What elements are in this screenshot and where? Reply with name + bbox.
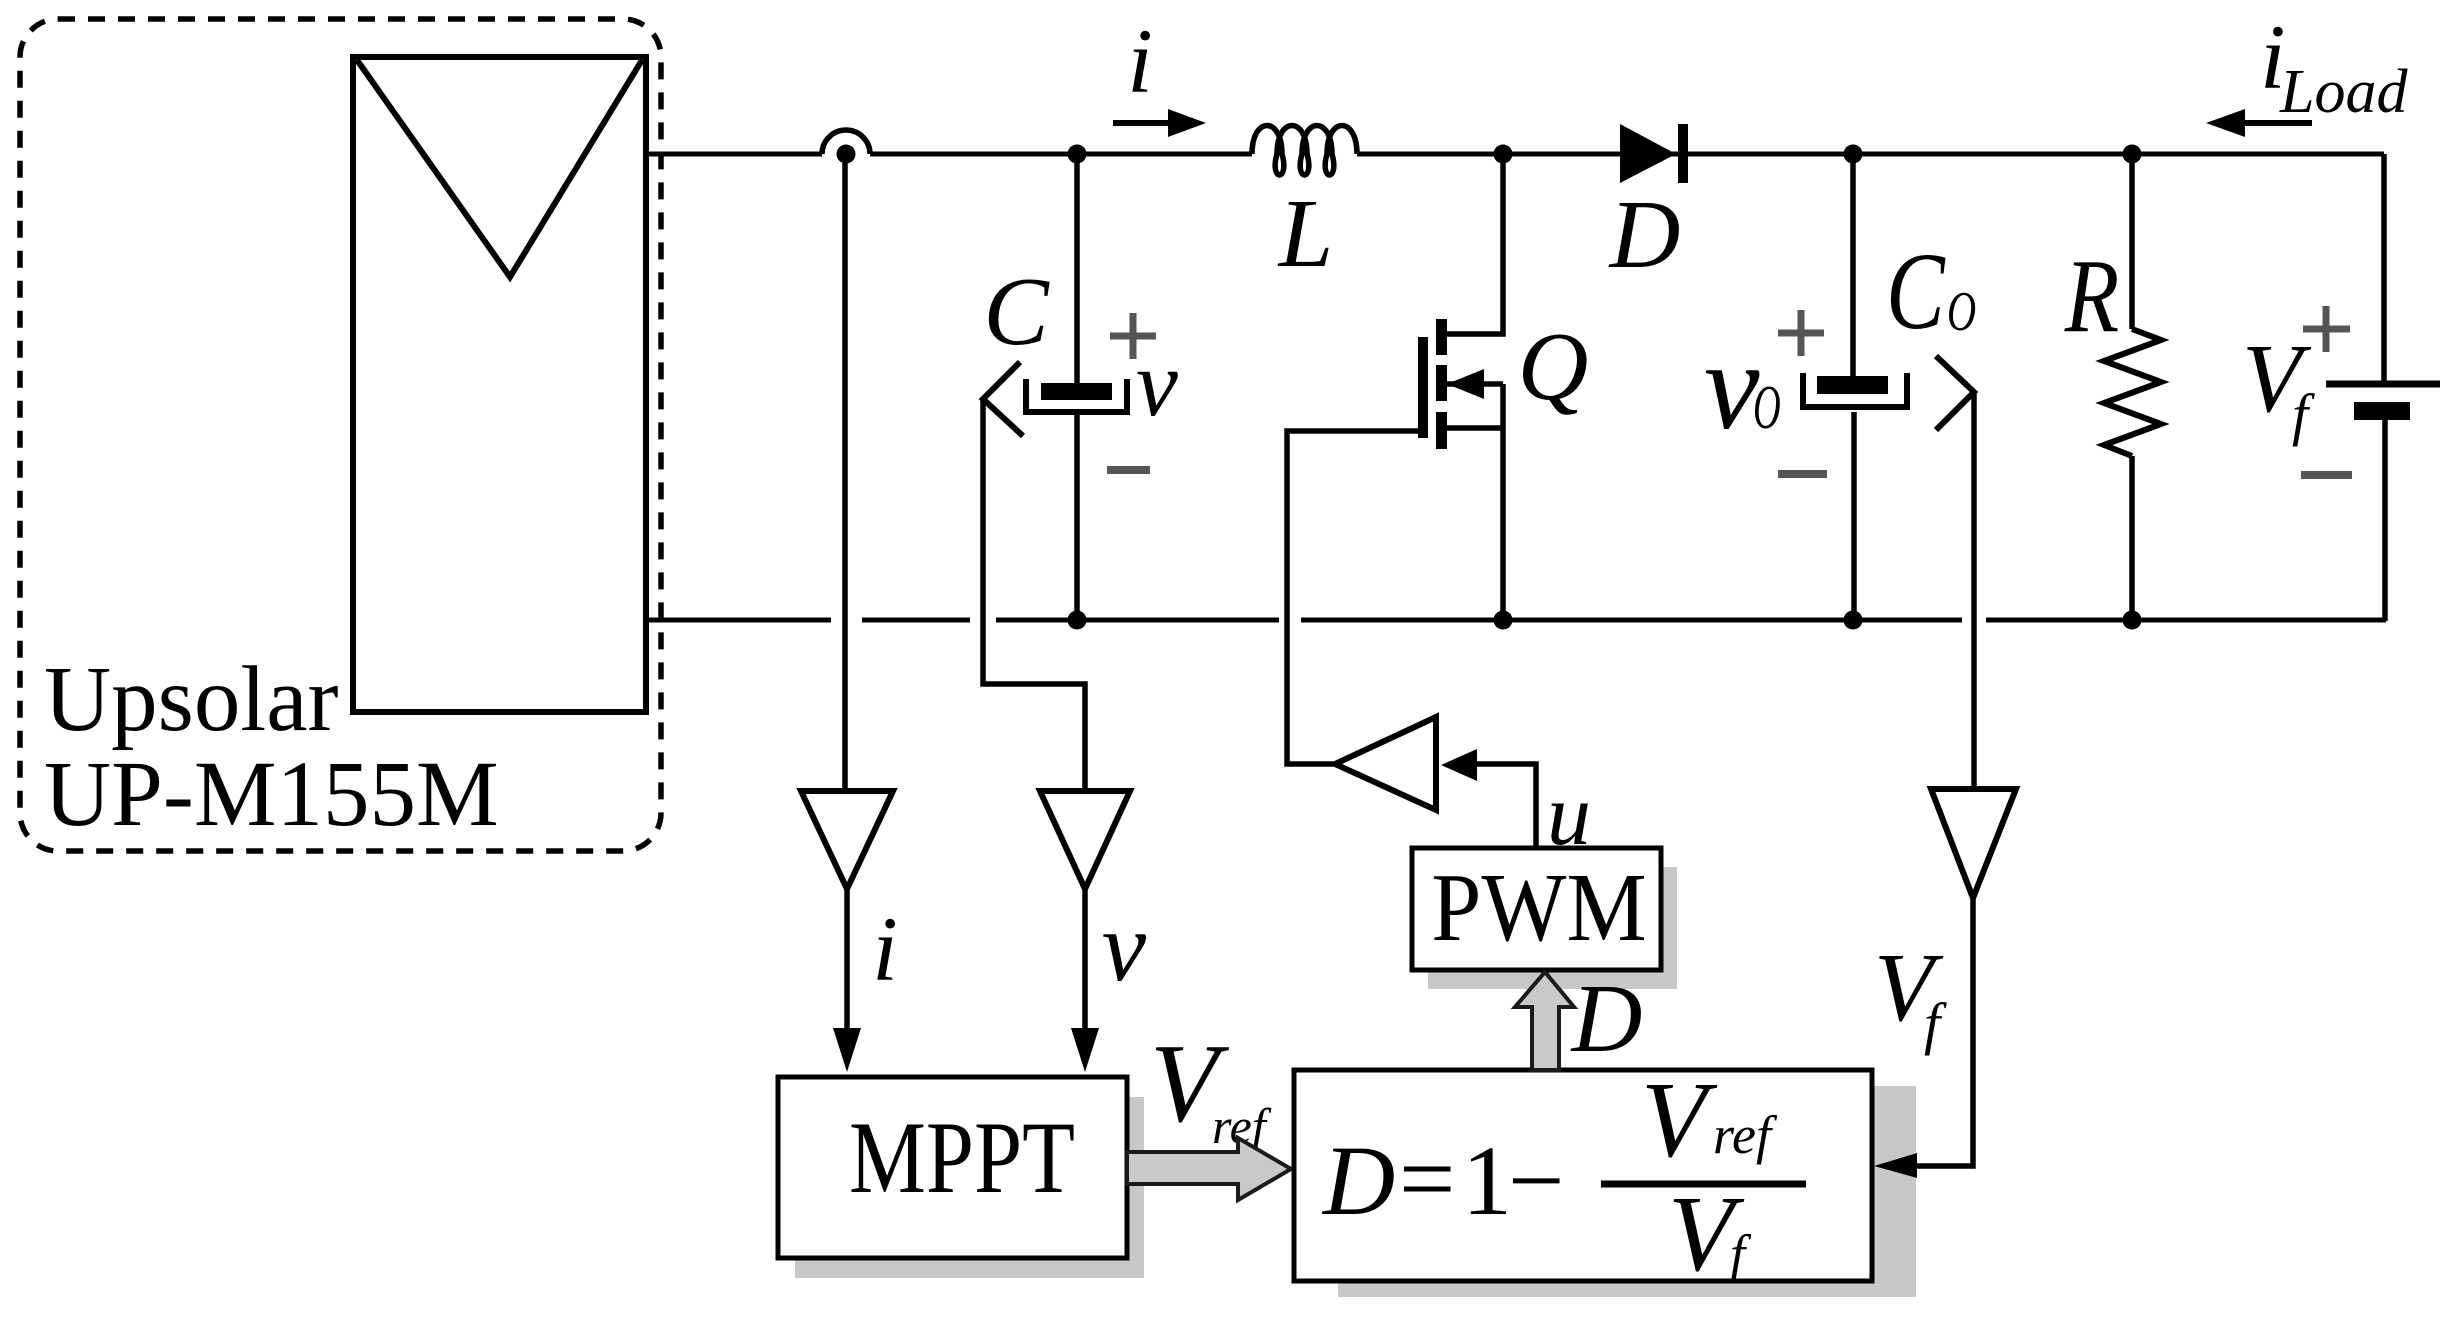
capacitor C [1026,379,1127,412]
wire C top lead [1074,154,1080,383]
svg-text:D: D [1570,965,1643,1073]
node B (Q top) [1494,145,1513,164]
resistor R [2104,329,2161,456]
svg-text:i: i [1127,10,1153,112]
node A (C top) [1068,145,1087,164]
svg-text:=: = [1399,1123,1455,1234]
svg-text:UP-M155M: UP-M155M [44,743,499,846]
svg-text:L: L [1277,180,1334,288]
svg-text:C: C [1886,230,1946,353]
v sense arrow to MPPT [1071,889,1099,1072]
v sense wire [983,399,1085,791]
Vf sense buffer [1931,789,2016,898]
iLoad arrow [2206,109,2312,137]
i sense arrow to MPPT [833,889,861,1072]
plus sign (Co) [1778,310,1824,356]
node H (R bottom) [2123,611,2142,630]
i sense buffer [801,791,893,889]
svg-text:v: v [1704,318,1760,456]
label D (diode) [1608,181,1681,289]
svg-text:Upsolar: Upsolar [44,648,338,751]
v sense buffer [1040,791,1130,889]
PWM box shadow [1428,867,1677,989]
label UP-M155M [44,743,499,846]
svg-text:v: v [1102,891,1147,1002]
plus sign (C) [1110,313,1156,359]
current arrow i [1113,109,1206,137]
PWM box [1412,848,1661,970]
label Co [1886,230,1976,353]
svg-text:V: V [1641,1061,1718,1180]
label Upsolar [44,648,338,751]
svg-text:C: C [983,258,1050,366]
svg-text:Load: Load [2279,58,2408,126]
wire top bus right [1357,152,2384,157]
label i (sense) [872,898,898,1000]
label D (duty) [1570,965,1643,1073]
gate wire [1287,431,1418,764]
label R [2064,238,2119,354]
wire top bus middle [870,152,1252,157]
v sense probe arrow [983,362,1023,436]
minus sign (Co) [1778,470,1827,478]
minus sign (C) [1107,466,1150,474]
MOSFET Q source wire [1500,384,1506,620]
svg-text:O: O [1753,374,1781,443]
resistor R bottom lead [2129,456,2135,620]
label C [983,258,1050,366]
label PWM [1431,854,1646,962]
i sense wire [842,163,848,791]
svg-text:v: v [1136,332,1178,436]
label i [1127,10,1153,112]
svg-text:O: O [1947,281,1976,343]
svg-text:Q: Q [1518,313,1589,421]
node G (Co bottom) [1844,611,1863,630]
MPPT box [778,1077,1127,1258]
svg-text:D: D [1608,181,1681,289]
label iLoad [2260,6,2408,126]
u wire and arrow [1441,749,1536,848]
current-sense hop [822,130,870,164]
label L [1277,180,1334,288]
wire Co bottom lead [1851,412,1857,620]
wire Co top lead [1850,154,1856,376]
block arrow D (PWM input) [1515,972,1574,1070]
PV module dashed box [20,19,661,851]
battery Vf top lead [2381,154,2387,384]
label u [1547,767,1591,864]
Vf feedback wire [1874,898,1973,1178]
D formula box [1294,1070,1872,1281]
label Vref [1150,1022,1272,1154]
minus sign (battery) [2301,471,2352,479]
D formula box shadow [1338,1086,1916,1297]
svg-text:u: u [1547,767,1591,864]
label vo [1704,318,1781,456]
svg-text:R: R [2064,238,2119,354]
svg-text:MPPT: MPPT [849,1100,1075,1215]
svg-text:ref: ref [1713,1105,1778,1165]
node E (C bottom) [1068,611,1087,630]
label Vf (battery) [2242,325,2315,447]
node D (R top) [2123,145,2142,164]
MOSFET Q drain wire [1447,154,1503,334]
label Vf (feedback) [1874,934,1947,1056]
capacitor Co [1803,373,1907,407]
wire bottom bus [646,618,2386,623]
svg-text:D: D [1321,1125,1395,1236]
Vf sense wire upper [1971,392,1977,789]
block arrow Vref [1127,1138,1291,1200]
Vf sense probe arrow [1936,356,1974,430]
label v (C) [1136,332,1178,436]
label v (sense) [1102,891,1147,1002]
MOSFET Q [1418,319,1503,449]
gate buffer [1335,717,1436,810]
node F (Q bottom) [1494,611,1513,630]
PV panel [353,57,646,712]
plus sign (battery) [2303,306,2350,352]
label MPPT [849,1100,1075,1215]
MPPT box shadow [795,1097,1144,1278]
diode D [1620,124,1688,183]
wire top bus left [646,152,822,157]
svg-text:1: 1 [1462,1125,1512,1236]
svg-text:PWM: PWM [1431,854,1646,962]
battery Vf [2326,384,2440,420]
label Q [1518,313,1589,421]
battery Vf bottom lead [2382,420,2388,621]
svg-text:−: − [1508,1125,1564,1236]
svg-text:i: i [872,898,898,1000]
resistor R top lead [2129,154,2135,329]
node C (Co top) [1844,145,1863,164]
inductor L [1252,126,1357,176]
formula D = 1 - Vref/Vf [1321,1061,1806,1294]
wire C bottom lead [1074,415,1080,620]
